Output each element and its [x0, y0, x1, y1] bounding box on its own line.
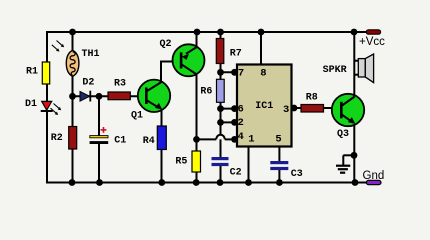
svg-text:R7: R7: [230, 48, 242, 59]
svg-text:+Vcc: +Vcc: [359, 36, 385, 48]
svg-text:4: 4: [238, 131, 244, 143]
svg-text:IC1: IC1: [255, 101, 273, 112]
svg-text:3: 3: [283, 104, 289, 116]
svg-text:TH1: TH1: [82, 49, 100, 60]
svg-text:R8: R8: [306, 92, 318, 103]
svg-text:C2: C2: [230, 167, 242, 178]
svg-text:C1: C1: [114, 135, 126, 146]
svg-text:R3: R3: [114, 79, 126, 90]
svg-text:D1: D1: [25, 99, 37, 110]
svg-text:2: 2: [238, 117, 244, 129]
svg-text:6: 6: [238, 104, 244, 116]
svg-text:R5: R5: [175, 157, 187, 168]
svg-text:Q3: Q3: [337, 129, 349, 140]
svg-text:C3: C3: [291, 169, 303, 180]
svg-text:Q2: Q2: [160, 39, 172, 50]
svg-text:Gnd: Gnd: [363, 170, 385, 182]
svg-text:D2: D2: [82, 78, 94, 89]
svg-text:1: 1: [248, 134, 254, 146]
svg-text:8: 8: [260, 67, 266, 79]
svg-text:SPKR: SPKR: [323, 65, 347, 76]
svg-text:7: 7: [238, 67, 244, 79]
svg-text:5: 5: [275, 134, 281, 146]
svg-text:R6: R6: [200, 87, 212, 98]
svg-text:R4: R4: [143, 136, 155, 147]
svg-text:R1: R1: [26, 66, 38, 77]
svg-text:Q1: Q1: [131, 111, 143, 122]
svg-text:R2: R2: [51, 133, 63, 144]
